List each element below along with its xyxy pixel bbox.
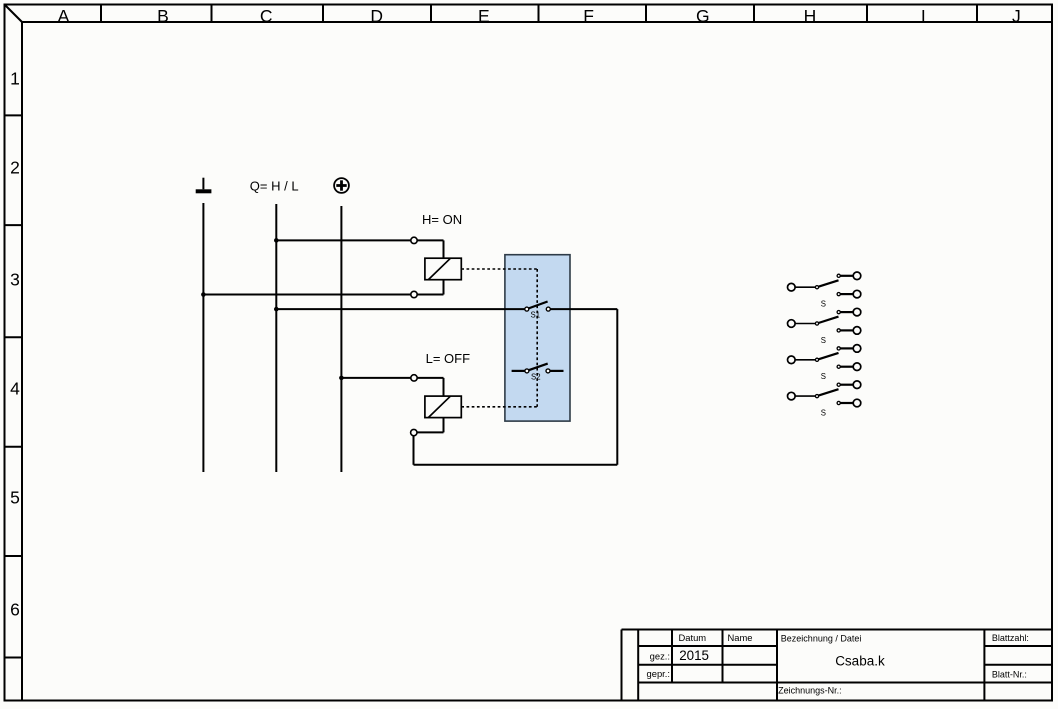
terminal circle coil2 bottom bbox=[411, 429, 417, 435]
svg-text:A: A bbox=[58, 6, 70, 26]
contact block box bbox=[505, 255, 570, 421]
ground bbox=[196, 178, 212, 194]
plus supply symbol bbox=[334, 178, 349, 193]
svg-text:Q= H / L: Q= H / L bbox=[250, 179, 299, 194]
svg-text:5: 5 bbox=[10, 487, 20, 507]
node junction H feed bbox=[274, 238, 279, 243]
column letters A-J bbox=[58, 6, 1021, 26]
svg-text:1: 1 bbox=[10, 68, 20, 88]
title block lines bbox=[622, 630, 1053, 701]
svg-text:gez.:: gez.: bbox=[650, 650, 670, 661]
node junction L feed bbox=[339, 376, 344, 381]
node junction S1 feed bbox=[274, 307, 279, 312]
svg-text:6: 6 bbox=[10, 599, 20, 619]
svg-text:Bezeichnung / Datei: Bezeichnung / Datei bbox=[781, 633, 862, 643]
switch bank unit 3 bbox=[788, 345, 861, 382]
svg-text:S: S bbox=[821, 300, 826, 309]
svg-text:3: 3 bbox=[10, 269, 20, 289]
wire S1 out bbox=[414, 309, 618, 465]
svg-text:gepr.:: gepr.: bbox=[647, 668, 670, 679]
switch bank unit 2 bbox=[788, 308, 861, 345]
svg-text:B: B bbox=[157, 6, 169, 26]
row numbers 1-6 bbox=[10, 68, 20, 619]
svg-text:S2: S2 bbox=[531, 373, 541, 382]
dashed link coil1 to contacts bbox=[461, 269, 537, 407]
wire Q vertical bbox=[275, 204, 277, 472]
wire S1 feed bbox=[276, 308, 525, 310]
svg-text:F: F bbox=[583, 6, 594, 26]
wire H feed bbox=[276, 240, 443, 258]
svg-text:J: J bbox=[1012, 6, 1021, 26]
svg-text:E: E bbox=[478, 6, 490, 26]
svg-text:Csaba.k: Csaba.k bbox=[835, 654, 885, 669]
svg-text:L= OFF: L= OFF bbox=[426, 351, 470, 366]
svg-text:4: 4 bbox=[10, 378, 20, 398]
wire ground vertical bbox=[202, 203, 204, 472]
svg-text:Blatt-Nr.:: Blatt-Nr.: bbox=[992, 670, 1027, 680]
node junction ground wire bbox=[201, 292, 206, 297]
wire plus vertical bbox=[340, 206, 342, 472]
switch S2 bbox=[512, 364, 564, 373]
svg-text:G: G bbox=[696, 6, 710, 26]
svg-text:Blattzahl:: Blattzahl: bbox=[992, 633, 1029, 643]
title block labels bbox=[647, 632, 753, 679]
terminal circle coil2 top bbox=[411, 375, 417, 381]
wire L feed bbox=[341, 378, 443, 396]
svg-text:2015: 2015 bbox=[679, 648, 709, 663]
wire coil1 bottom bbox=[203, 280, 443, 295]
svg-text:2: 2 bbox=[10, 157, 20, 177]
left band row dividers bbox=[4, 115, 22, 657]
top band column dividers bbox=[101, 4, 977, 22]
terminal circle coil1 top bbox=[411, 237, 417, 243]
svg-text:H= ON: H= ON bbox=[422, 212, 462, 227]
dashed link coil2 to contacts bbox=[461, 406, 537, 408]
switch bank unit 1 bbox=[788, 272, 861, 309]
wire coil2 bottom bbox=[417, 418, 443, 433]
terminal circle coil1 bottom bbox=[411, 291, 417, 297]
switch bank unit 4 bbox=[788, 381, 861, 418]
svg-text:D: D bbox=[370, 6, 383, 26]
svg-text:Datum: Datum bbox=[679, 632, 707, 643]
relay coil K1 bbox=[425, 258, 461, 280]
svg-text:C: C bbox=[260, 6, 273, 26]
relay coil K2 bbox=[425, 396, 461, 418]
svg-text:H: H bbox=[804, 6, 817, 26]
switch S1 bbox=[525, 302, 551, 312]
svg-text:S1: S1 bbox=[531, 311, 541, 320]
svg-text:Name: Name bbox=[728, 632, 753, 643]
svg-text:Zeichnungs-Nr.:: Zeichnungs-Nr.: bbox=[778, 686, 842, 696]
svg-text:I: I bbox=[921, 6, 926, 26]
